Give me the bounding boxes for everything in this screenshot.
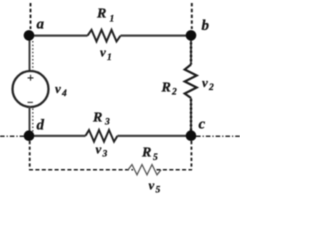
svg-text:+: + xyxy=(27,71,34,85)
wire right: R2 to node c xyxy=(190,98,192,136)
wire dotted loop beside left branch lower xyxy=(32,109,34,134)
wire top: node a to R1 xyxy=(29,34,88,36)
svg-text:b: b xyxy=(202,18,210,34)
svg-text:1: 1 xyxy=(110,15,115,25)
svg-text:v: v xyxy=(202,75,208,90)
wire dashed bottom left segment xyxy=(29,169,133,171)
wire dash-dot left of node d xyxy=(0,135,24,137)
svg-text:c: c xyxy=(199,117,206,133)
voltage source v4 xyxy=(13,71,49,107)
svg-text:2: 2 xyxy=(171,88,177,98)
wire dash-dot right of node c xyxy=(196,135,240,137)
wire top: R1 to node b xyxy=(121,34,192,36)
wire right: node b to R2 xyxy=(190,36,192,65)
node d xyxy=(24,130,35,141)
svg-text:R: R xyxy=(141,146,151,161)
resistor R5 xyxy=(128,165,161,175)
wire dashed below node c xyxy=(190,141,192,170)
svg-text:d: d xyxy=(37,118,45,134)
svg-text:v: v xyxy=(100,45,106,60)
svg-text:5: 5 xyxy=(153,153,158,163)
wire dashed above node b xyxy=(191,3,193,29)
wire dashed bottom right segment xyxy=(157,169,193,171)
svg-text:3: 3 xyxy=(102,150,108,160)
wire bottom: R3 to node c xyxy=(118,135,192,137)
svg-text:a: a xyxy=(37,17,45,33)
svg-text:v: v xyxy=(149,178,155,193)
svg-text:5: 5 xyxy=(156,186,161,196)
node b xyxy=(186,30,197,41)
wire dotted loop beside left branch upper xyxy=(32,41,34,70)
svg-text:R: R xyxy=(161,81,171,96)
node c xyxy=(186,130,197,141)
resistor R1 xyxy=(88,30,121,42)
svg-text:R: R xyxy=(92,111,102,126)
svg-text:v: v xyxy=(96,142,102,157)
resistor R2 xyxy=(185,65,197,99)
svg-text:3: 3 xyxy=(104,118,110,128)
svg-text:v: v xyxy=(55,81,61,96)
svg-text:2: 2 xyxy=(208,83,214,93)
wire left: source to node d xyxy=(29,107,31,136)
wire bottom: node d to R3 xyxy=(29,135,86,137)
svg-text:1: 1 xyxy=(107,53,112,63)
wire left: node a to source xyxy=(29,36,31,72)
svg-text:4: 4 xyxy=(61,89,67,99)
wire dashed below node d xyxy=(29,141,31,170)
node a xyxy=(24,30,35,41)
wire dashed above node a xyxy=(30,3,32,29)
resistor R3 xyxy=(86,130,118,142)
svg-text:R: R xyxy=(96,7,106,22)
